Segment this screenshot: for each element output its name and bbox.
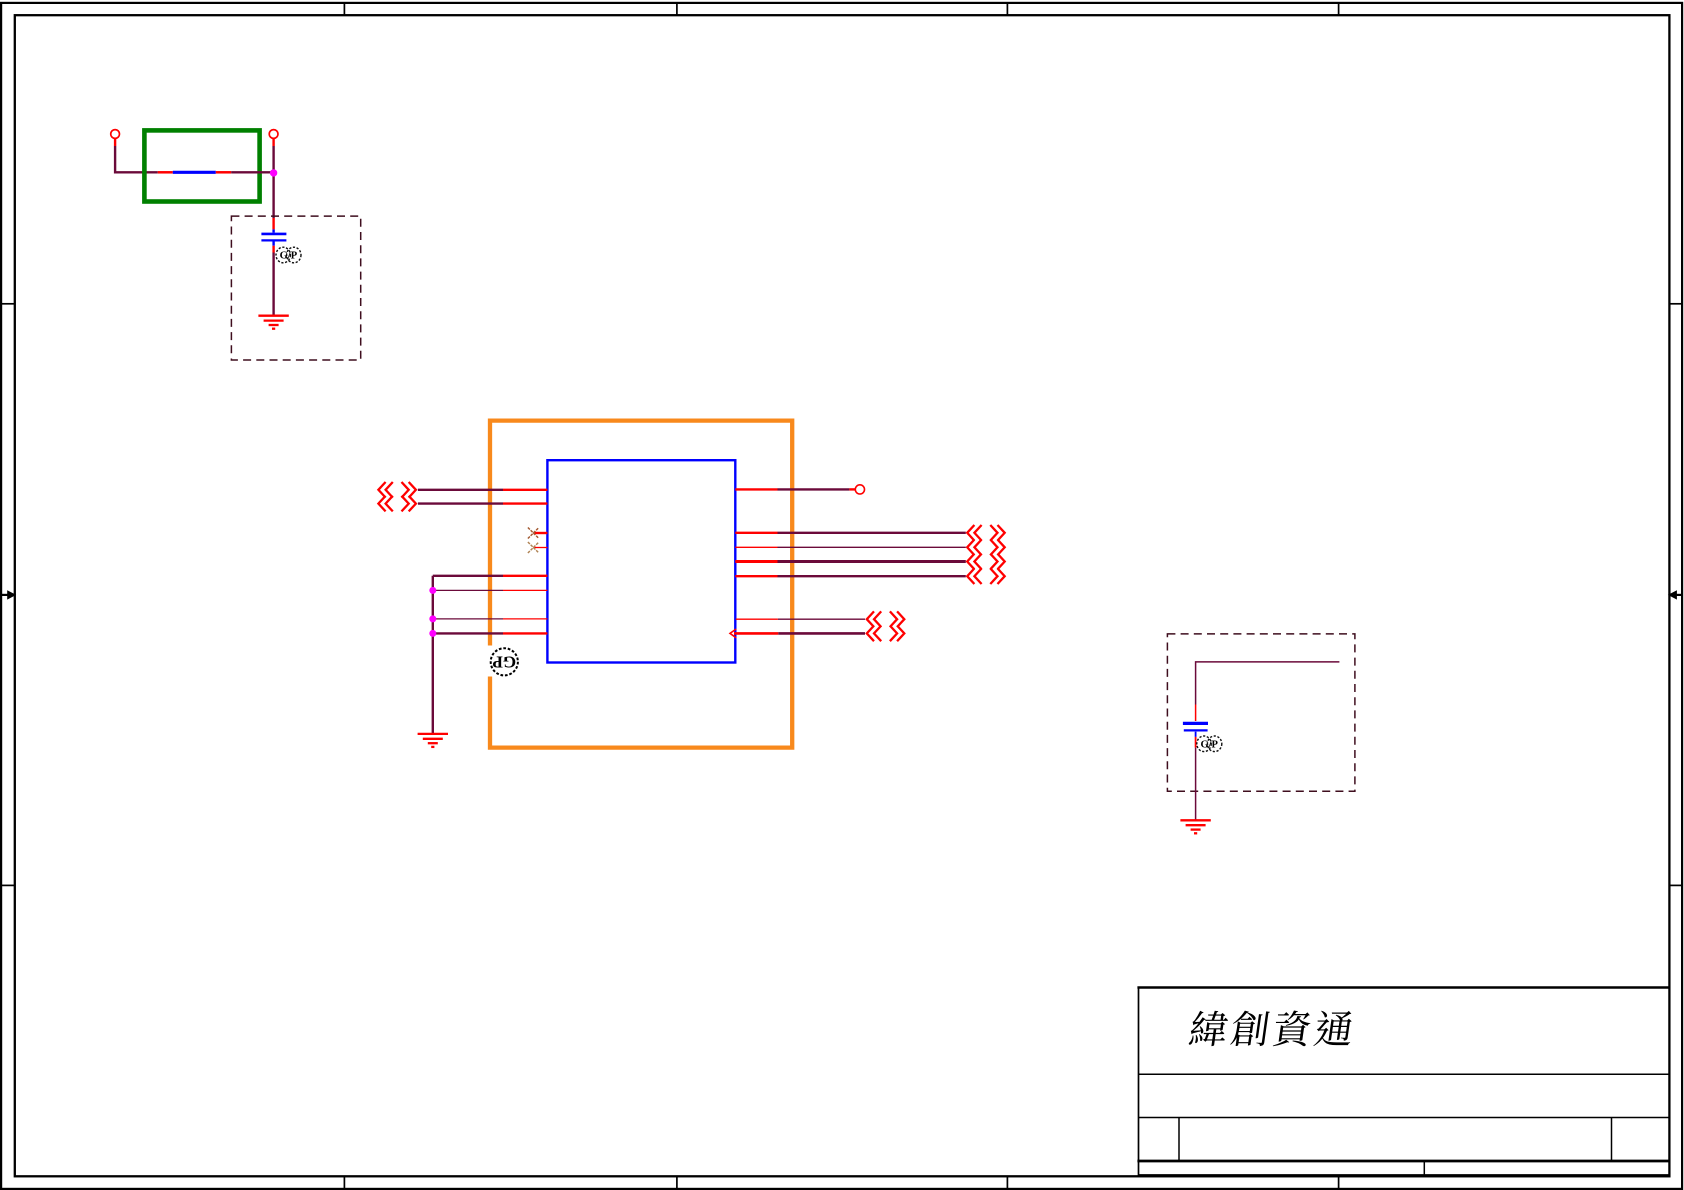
svg-text:G/P: G/P — [1200, 739, 1218, 750]
svg-text:GP: GP — [492, 652, 516, 671]
net stub wire — [1196, 662, 1340, 705]
dashed box around C1 — [231, 216, 360, 360]
ground (bus) — [418, 734, 448, 747]
G/P stamp — [1197, 736, 1222, 752]
junction dots — [429, 587, 436, 594]
G/P stamp — [276, 247, 301, 263]
no-connect pin X1 — [533, 532, 547, 534]
lower right wire thin — [736, 618, 778, 620]
left centre arrow — [1, 594, 10, 596]
wire bus top — [433, 575, 503, 577]
port P1 (left open terminal) — [111, 130, 120, 139]
capacitor C2 — [1195, 705, 1197, 722]
shield box (orange, gap at stamp) — [490, 421, 792, 748]
pin wire to port circle — [735, 488, 777, 490]
ground — [258, 316, 288, 329]
resistor R1 body outline (green) — [144, 130, 259, 201]
company logo text — [1188, 1011, 1354, 1047]
open terminal circle — [855, 485, 864, 494]
off-page connectors (right bundle) — [967, 525, 1005, 541]
title block — [1137, 988, 1669, 1177]
wire tap 4 — [433, 632, 503, 634]
wire resistor to node — [231, 171, 273, 173]
off-page connectors (lower right) — [867, 611, 905, 627]
IC U1 body — [547, 460, 735, 662]
wire to pin 1 — [418, 489, 503, 491]
GP stamp (rotated) — [491, 648, 518, 675]
wire tap 2 — [433, 589, 503, 591]
wire to pin 2 — [418, 502, 503, 504]
svg-text:G/P: G/P — [280, 251, 298, 262]
off-page connector (left pair) — [378, 482, 416, 498]
right bus wires — [735, 532, 777, 534]
wire P2 down to C1 — [272, 146, 274, 218]
wire from P1 to resistor — [115, 146, 158, 172]
wire tap 3 — [433, 618, 503, 620]
port P2 (right open terminal) — [269, 130, 278, 139]
ground — [1180, 820, 1210, 833]
resistor R1 element — [158, 171, 173, 174]
wire C2 to ground — [1195, 748, 1197, 821]
no-connect pin X2 — [533, 547, 547, 549]
right centre arrow — [1674, 594, 1683, 596]
vertical bus wire — [432, 576, 434, 734]
dashed box around C2 — [1167, 634, 1355, 791]
lower right wire thick with input arrow — [734, 632, 778, 635]
wire C1 to ground — [272, 253, 274, 316]
junction node — [270, 169, 277, 176]
capacitor C1 — [272, 218, 274, 229]
